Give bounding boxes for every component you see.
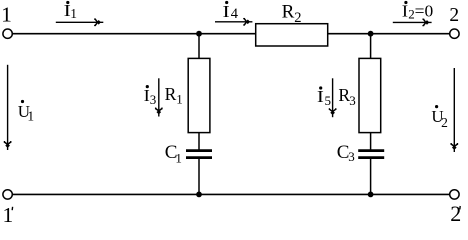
wire top-left segment (terminal 1 to R2) <box>13 33 256 35</box>
svg-text:I2=0: I2=0 <box>402 1 434 21</box>
label I3 <box>144 85 157 107</box>
wire R1 to C1 <box>198 133 200 151</box>
wire R3 branch top <box>370 34 372 59</box>
wire R1 branch top <box>198 34 200 59</box>
resistor R2 <box>256 24 328 46</box>
current arrow I3 <box>156 78 162 116</box>
junction node B (top of R3 branch) <box>368 31 374 37</box>
wire R3 to C3 <box>370 133 372 151</box>
terminal 2' label <box>450 201 461 226</box>
junction node B' (bottom of C3 branch) <box>368 192 374 198</box>
svg-text:2: 2 <box>449 5 459 26</box>
label U1 <box>18 100 34 124</box>
current arrow I2 <box>393 19 432 25</box>
svg-text:2: 2 <box>450 201 461 226</box>
wire bottom segment (terminal 1' to terminal 2') <box>13 193 449 195</box>
terminal 1' <box>3 190 12 199</box>
resistor R1 <box>188 58 210 132</box>
current arrow I1 <box>56 19 104 25</box>
junction node A' (bottom of C1 branch) <box>196 192 202 198</box>
current arrow I5 <box>329 78 335 117</box>
capacitor C3 <box>358 151 384 158</box>
voltage arrow U2 <box>451 68 457 152</box>
terminal 2' <box>450 190 459 199</box>
capacitor C1 <box>186 151 212 158</box>
label I2 = 0 <box>402 1 434 22</box>
wire top-right segment (R2 to terminal 2) <box>328 33 450 35</box>
label I1 <box>64 1 77 21</box>
terminal 1 <box>3 29 12 38</box>
current arrow I4 <box>215 19 252 25</box>
terminal 2 <box>450 29 459 38</box>
label I5 <box>317 86 331 107</box>
label I4 <box>223 1 239 22</box>
wire C1 to bottom <box>198 158 200 195</box>
voltage arrow U1 <box>4 65 10 150</box>
resistor R3 <box>359 58 381 132</box>
junction node A (top of R1 branch) <box>196 31 202 37</box>
svg-text:1: 1 <box>1 2 12 26</box>
svg-text:I4: I4 <box>223 2 239 22</box>
label U2 <box>431 105 447 130</box>
terminal 1' label <box>3 203 14 227</box>
svg-text:1: 1 <box>3 203 14 226</box>
wire C3 to bottom <box>370 158 372 195</box>
